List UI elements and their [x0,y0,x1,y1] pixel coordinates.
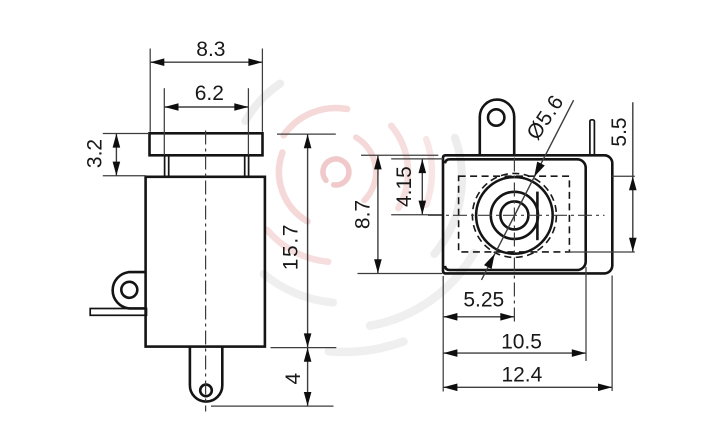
dim 15.7 arrow top [304,134,312,148]
dim 8.3 arrow left [150,58,164,66]
svg-text:5.5: 5.5 [608,117,631,146]
side view body [146,177,265,347]
side view side solder pin [90,309,146,316]
side view lug hole [121,282,137,298]
dim 5.25 arrow right [500,313,514,321]
dim 4.15 line [421,159,423,215]
side view flange [150,133,263,155]
dim 5.5 line [632,102,634,252]
dim 3.2 line [115,134,117,176]
svg-text:8.7: 8.7 [352,200,375,229]
dim 3.2 extension bottom [103,175,146,177]
shared extension body bottom [271,347,337,349]
watermark pink arc r57 left [279,153,308,222]
dim 8.7 arrow top [374,155,382,169]
svg-text:Ø5.6: Ø5.6 [522,91,568,144]
svg-text:10.5: 10.5 [501,330,542,353]
front view vertical centerline [513,158,515,322]
dim 15.7 arrow bottom [304,333,312,347]
front view hidden shield rectangle [459,176,570,252]
dim 6.2 line [165,106,249,108]
dim 4 extension bottom [211,405,334,407]
dim 8.3 extension right [261,49,263,132]
left extension line below body [442,276,444,392]
svg-text:6.2: 6.2 [195,82,224,105]
front view top pin [590,120,595,156]
dim 4.15 extension top [391,158,443,160]
front view top mounting lug [480,100,514,156]
front view center pin circle [500,201,528,229]
front view barrel outer circle [476,177,553,254]
watermark gray arc bottom-left [264,274,334,303]
dim 12.4 arrow left [443,384,457,392]
dim 4 line [307,348,309,406]
side view bottom pin [190,347,222,402]
front view rear housing [443,155,612,273]
front view contact flat line [536,192,539,241]
side view neck outer wall right [248,155,250,177]
side view bottom pin hole [200,385,212,397]
dim 12.4 extension right [611,276,613,392]
dim 3.2 arrow bottom [113,162,121,176]
dim 3.2 extension top [103,133,149,135]
svg-text:3.2: 3.2 [84,139,107,168]
dim 6.2 arrow left [165,103,179,111]
dim 5.25 arrow left [443,313,457,321]
dim 10.5 extension right [585,267,587,361]
dim 8.7 arrow bottom [374,259,382,273]
dim 8.3 line [150,61,262,63]
watermark pink arc r64 top-left [284,108,348,135]
watermark gray arc lower-right [370,253,474,326]
dim 10.5 arrow left [443,349,457,357]
side view neck inner wall left [168,155,170,177]
dim 4 arrow top [304,348,312,362]
dim 6.2 extension left [163,88,165,155]
dim 5.5 extension bottom [567,251,635,253]
dim 6.2 extension right [247,88,249,155]
dim 4 arrow bottom [304,392,312,406]
dim 8.7 extension bottom [358,273,443,275]
front view face plate [445,159,586,270]
watermark pink arc r40 right of core [356,137,376,200]
dim 4.15 arrow top [419,159,427,173]
dim 8.7 extension top [361,154,438,156]
dim diameter 5.6 arrow upper [534,162,545,177]
front view barrel middle circle [491,192,538,239]
watermark gray arc right [434,138,462,254]
dim 10.5 arrow right [572,349,586,357]
dim 12.4 line [443,386,612,388]
dim 5.5 extension top [612,175,635,177]
dim 6.2 arrow right [234,103,248,111]
svg-text:15.7: 15.7 [280,223,303,270]
side view mounting lug [113,272,147,308]
dim 8.3 extension left [149,49,151,132]
dim 4.15 extension bottom [391,214,442,216]
dim 8.7 line [377,155,379,273]
watermark pink arc r90 lower-left [267,230,328,262]
dim 5.5 arrow top [629,176,637,190]
side view centerline [205,131,207,412]
side view neck inner wall right [244,155,246,177]
svg-text:12.4: 12.4 [501,364,542,387]
svg-text:4.15: 4.15 [393,166,416,207]
front view hidden circle [472,173,556,257]
svg-text:5.25: 5.25 [463,288,504,311]
dim 3.2 arrow top [113,134,121,148]
watermark gray arc bottom [329,342,404,352]
side view neck outer wall left [164,155,166,177]
front view lug hole [488,109,504,125]
svg-text:4: 4 [282,372,305,384]
dim 15.7 line [307,134,309,347]
watermark pink arc r72 right [391,126,408,208]
svg-text:8.3: 8.3 [196,38,225,61]
dim diameter 5.6 leader line [482,100,574,280]
dim 12.4 arrow right [598,384,612,392]
dim 5.5 arrow bottom [629,238,637,252]
dim 15.7 extension top [277,133,336,135]
dim 10.5 line [443,352,585,354]
dim 4.15 arrow bottom [419,201,427,215]
front view horizontal centerline [428,214,605,216]
dim 8.3 arrow right [248,58,262,66]
dim 5.25 line [443,316,514,318]
watermark pink arc r96 far right [426,139,432,205]
watermark inner pink hook [245,84,474,352]
watermark gray arc upper-left [245,84,280,122]
dim diameter 5.6 arrow lower [484,254,495,269]
